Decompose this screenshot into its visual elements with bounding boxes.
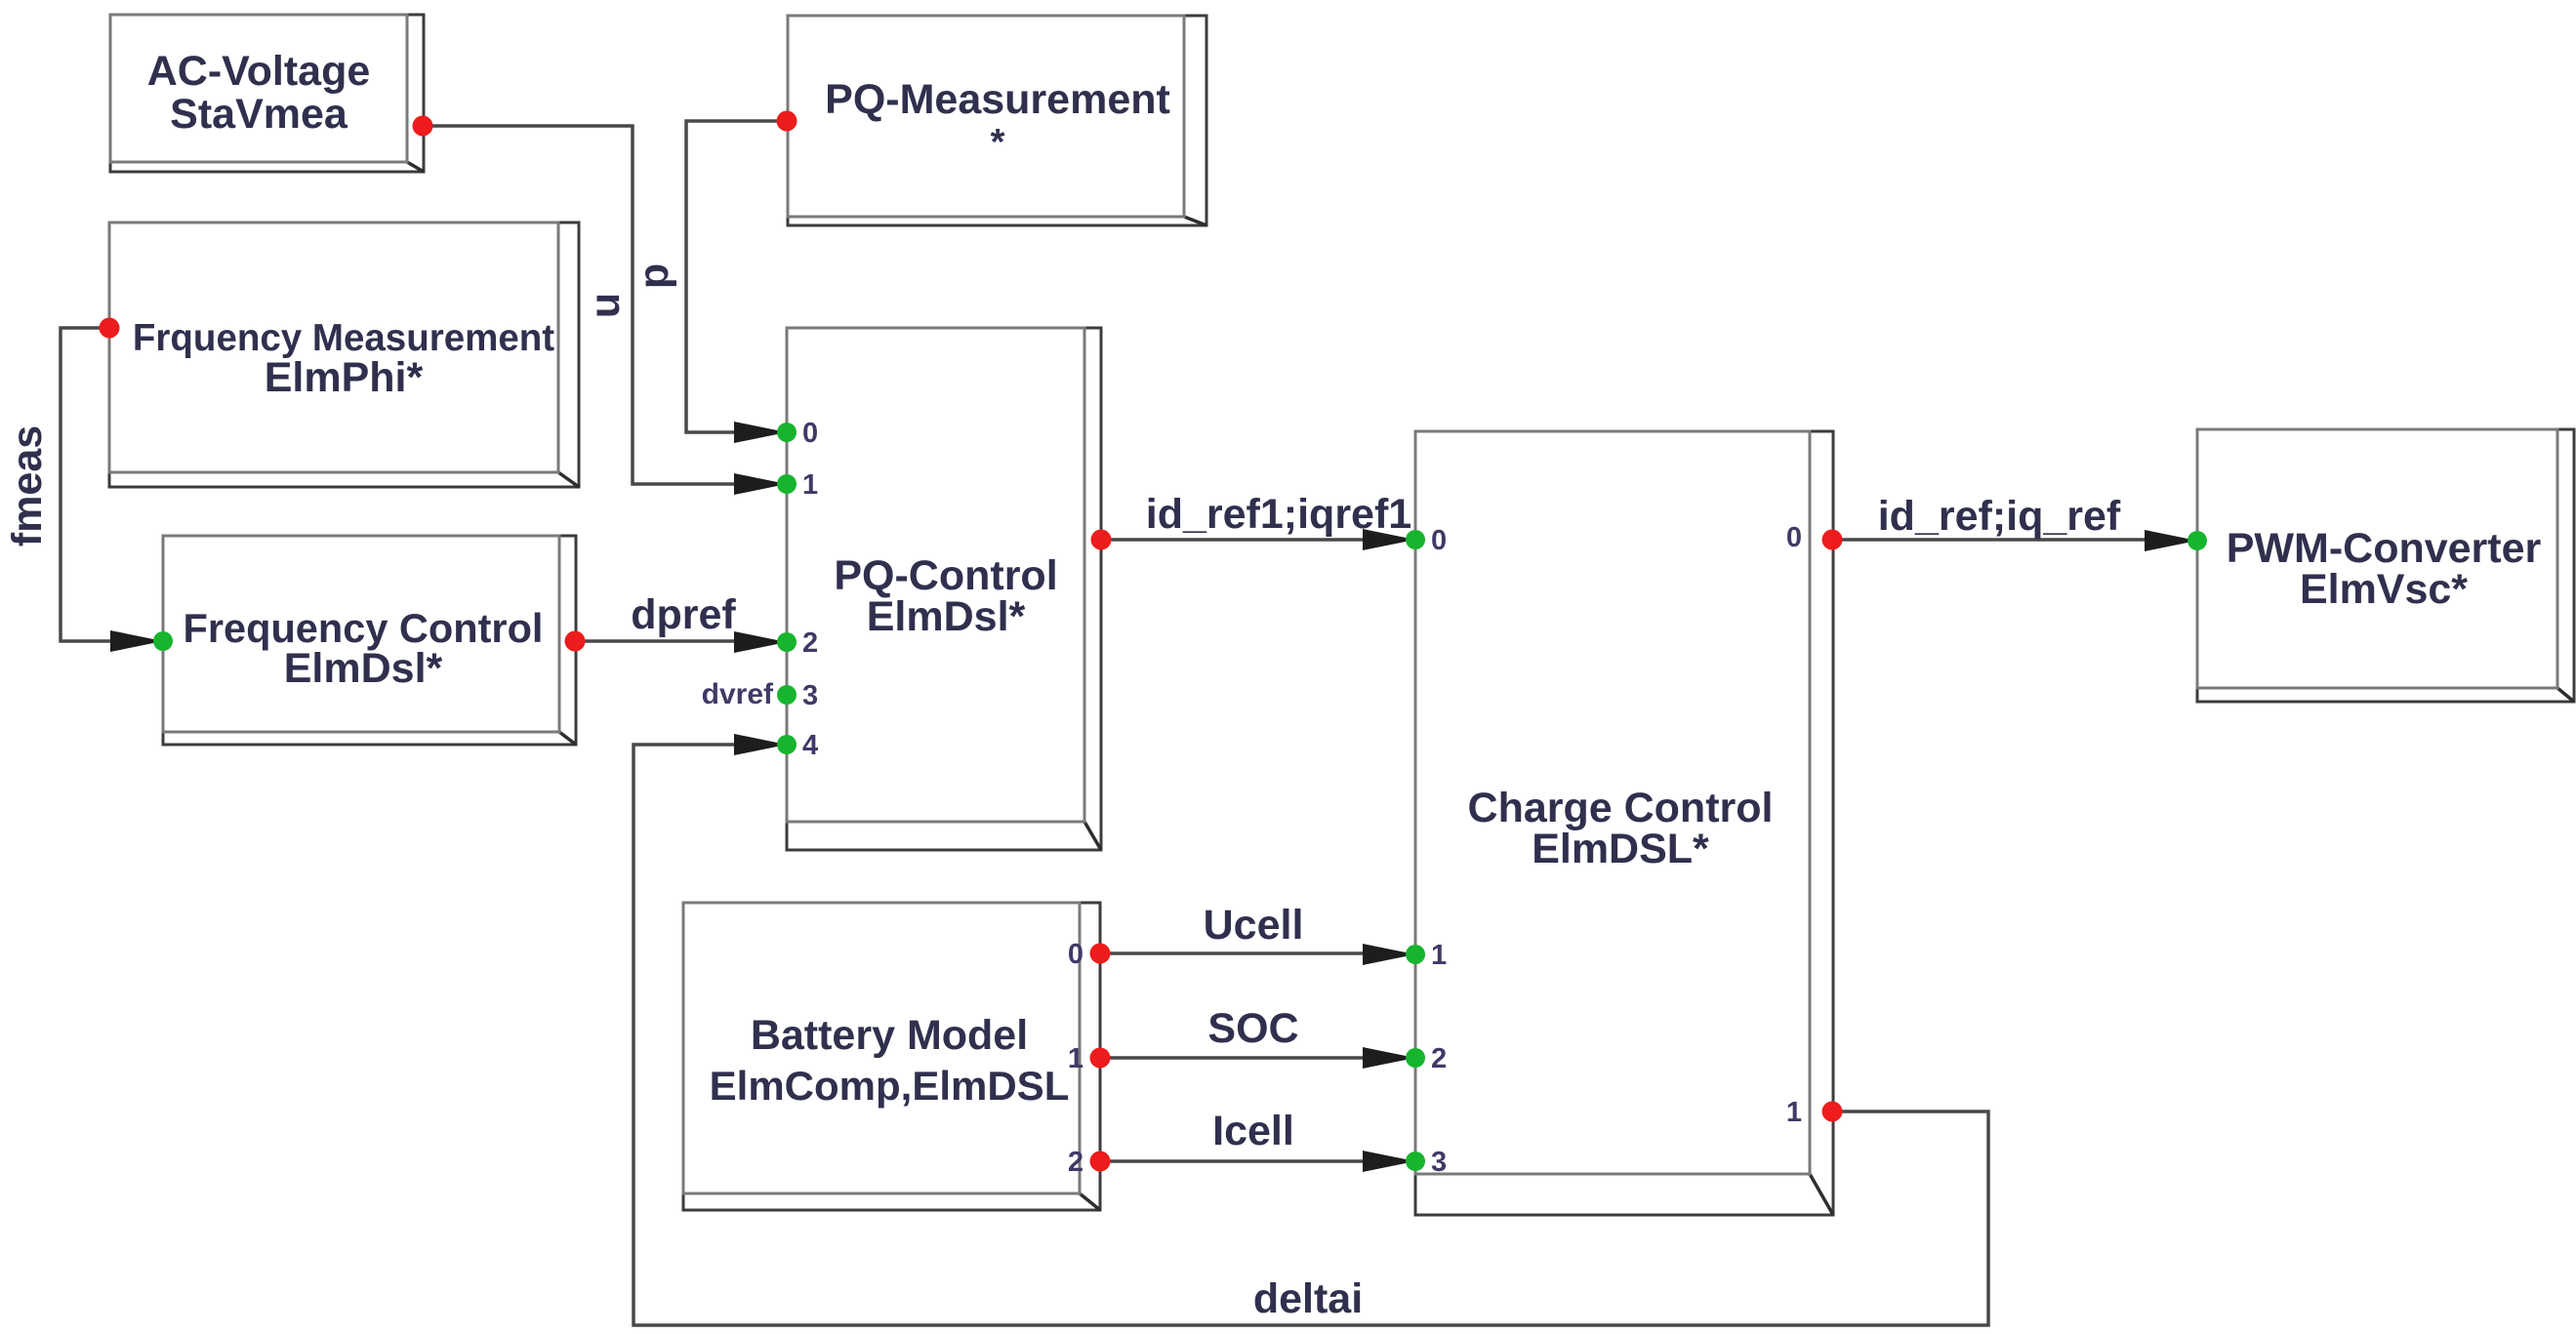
- node PQ-Measurement output (red): [777, 111, 797, 132]
- svg-text:p: p: [631, 263, 677, 289]
- svg-text:2: 2: [1068, 1147, 1084, 1178]
- arrow into PQ-Control pin 2: [734, 631, 787, 653]
- arrow into PQ-Control pin 0: [734, 422, 787, 443]
- arrow into Charge Control pin 0: [1363, 529, 1415, 550]
- node PQ-Control pin 0 (green): [777, 423, 797, 442]
- arrow into Frequency Control pin 0: [110, 630, 163, 652]
- block Charge Control ElmDSL*: [1415, 431, 1833, 1215]
- svg-text:1: 1: [1786, 1097, 1802, 1128]
- svg-text:PWM-Converter: PWM-Converter: [2227, 525, 2542, 572]
- node Charge Control output 1 (red): [1822, 1102, 1843, 1122]
- node PQ-Control pin 1 (green): [777, 474, 797, 494]
- svg-text:dvref: dvref: [702, 678, 774, 710]
- node Frquency Measurement output (red): [100, 318, 120, 339]
- node PQ-Control pin 2 (green): [777, 632, 797, 652]
- svg-text:0: 0: [1431, 525, 1447, 556]
- wire id_ref1;iqref1: [1101, 538, 1365, 542]
- node Battery output 2 (red): [1090, 1152, 1111, 1172]
- arrow into PQ-Control pin 4: [734, 734, 787, 755]
- block PWM-Converter ElmVsc*: [2197, 429, 2574, 702]
- wire Ucell: [1100, 951, 1363, 955]
- svg-text:ElmDsl*: ElmDsl*: [867, 593, 1026, 640]
- arrow into Charge Control pin 2: [1363, 1047, 1415, 1069]
- wire id_ref;iq_ref: [1832, 538, 2145, 542]
- node Battery output 1 (red): [1090, 1048, 1111, 1069]
- arrow into Charge Control pin 3: [1363, 1151, 1415, 1172]
- node Charge Control pin 0 (green): [1406, 530, 1425, 549]
- svg-text:fmeas: fmeas: [4, 425, 51, 546]
- svg-text:PQ-Measurement: PQ-Measurement: [825, 76, 1170, 123]
- svg-text:3: 3: [802, 680, 818, 711]
- svg-text:3: 3: [1431, 1147, 1447, 1178]
- node Charge Control pin 2 (green): [1406, 1048, 1425, 1068]
- block PQ-Measurement *: [788, 16, 1206, 225]
- svg-text:id_ref1;iqref1: id_ref1;iqref1: [1146, 491, 1411, 538]
- wire deltai: [634, 745, 1988, 1325]
- svg-text:ElmVsc*: ElmVsc*: [2300, 566, 2468, 613]
- svg-text:dpref: dpref: [631, 591, 736, 638]
- wire p: [686, 121, 787, 432]
- svg-text:deltai: deltai: [1253, 1275, 1363, 1322]
- wire fmeas: [61, 328, 111, 641]
- svg-text:ElmComp,ElmDSL: ElmComp,ElmDSL: [710, 1063, 1070, 1109]
- svg-text:id_ref;iq_ref: id_ref;iq_ref: [1878, 493, 2121, 540]
- node AC-Voltage output (red): [413, 116, 433, 137]
- svg-text:0: 0: [802, 418, 818, 449]
- svg-text:PQ-Control: PQ-Control: [834, 552, 1057, 599]
- arrow into PQ-Control pin 1: [734, 473, 787, 495]
- svg-text:u: u: [582, 293, 629, 318]
- node Frequency Control input 0 (green): [153, 631, 173, 651]
- svg-text:1: 1: [802, 469, 818, 501]
- svg-text:0: 0: [1068, 939, 1084, 970]
- node PWM-Converter input (green): [2188, 531, 2207, 550]
- node PQ-Control output 0 (red): [1091, 530, 1112, 550]
- svg-text:2: 2: [802, 627, 818, 659]
- block AC-Voltage StaVmea: [110, 15, 424, 172]
- svg-text:AC-Voltage: AC-Voltage: [147, 48, 371, 95]
- node Frequency Control output (red): [565, 631, 586, 652]
- svg-text:Battery Model: Battery Model: [751, 1012, 1028, 1059]
- arrow into Charge Control pin 1: [1363, 944, 1415, 965]
- block Frquency Measurement ElmPhi*: [109, 222, 579, 487]
- svg-text:SOC: SOC: [1207, 1005, 1298, 1052]
- wire u: [423, 126, 734, 484]
- svg-text:Frequency Control: Frequency Control: [184, 605, 544, 651]
- node PQ-Control pin 4 (green): [777, 735, 797, 754]
- block Frequency Control ElmDsl*: [163, 536, 576, 745]
- node PQ-Control pin 3 (green): [777, 685, 797, 705]
- svg-text:Icell: Icell: [1212, 1108, 1294, 1154]
- node Charge Control pin 3 (green): [1406, 1152, 1425, 1171]
- wire SOC: [1100, 1056, 1363, 1060]
- node Charge Control output 0 (red): [1822, 530, 1843, 550]
- svg-text:2: 2: [1431, 1043, 1447, 1074]
- svg-text:Ucell: Ucell: [1204, 902, 1304, 949]
- svg-text:ElmDsl*: ElmDsl*: [284, 645, 443, 692]
- svg-text:4: 4: [802, 730, 818, 761]
- svg-text:StaVmea: StaVmea: [170, 91, 348, 138]
- arrow into PWM-Converter pin 0: [2145, 530, 2197, 551]
- svg-text:ElmDSL*: ElmDSL*: [1532, 826, 1709, 872]
- svg-text:Charge Control: Charge Control: [1468, 785, 1774, 831]
- svg-text:ElmPhi*: ElmPhi*: [265, 354, 424, 401]
- svg-text:1: 1: [1431, 940, 1447, 971]
- node Battery output 0 (red): [1090, 944, 1111, 964]
- block PQ-Control ElmDsl*: [787, 328, 1101, 850]
- block Battery Model ElmComp,ElmDSL: [683, 903, 1100, 1210]
- svg-text:1: 1: [1068, 1043, 1084, 1074]
- wire Icell: [1100, 1159, 1363, 1163]
- svg-text:Frquency Measurement: Frquency Measurement: [133, 317, 554, 359]
- svg-text:*: *: [991, 122, 1005, 163]
- svg-text:0: 0: [1786, 522, 1802, 553]
- node Charge Control pin 1 (green): [1406, 945, 1425, 964]
- wire dpref: [575, 639, 734, 643]
